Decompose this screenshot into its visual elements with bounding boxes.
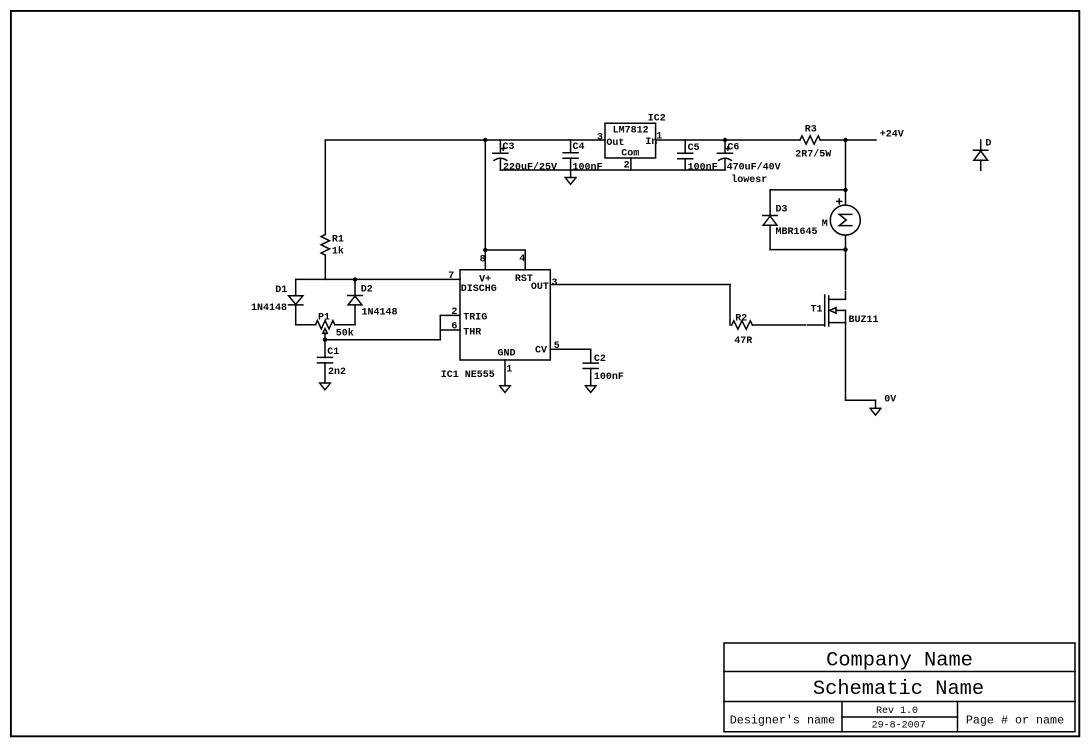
svg-text:C4: C4 bbox=[573, 142, 585, 153]
svg-text:1: 1 bbox=[506, 365, 512, 376]
svg-text:P1: P1 bbox=[318, 312, 330, 323]
svg-text:IC1 NE555: IC1 NE555 bbox=[441, 370, 495, 381]
svg-text:220uF/25V: 220uF/25V bbox=[503, 161, 557, 173]
svg-text:100nF: 100nF bbox=[594, 372, 624, 383]
svg-text:C5: C5 bbox=[688, 143, 700, 154]
svg-text:C6: C6 bbox=[727, 143, 739, 154]
svg-text:Designer's name: Designer's name bbox=[730, 713, 835, 727]
svg-text:1: 1 bbox=[656, 132, 662, 143]
svg-text:2n2: 2n2 bbox=[328, 367, 346, 378]
svg-text:TRIG: TRIG bbox=[463, 312, 487, 323]
svg-text:50k: 50k bbox=[336, 328, 354, 340]
svg-text:2: 2 bbox=[624, 160, 630, 171]
svg-text:1N4148: 1N4148 bbox=[362, 307, 398, 318]
svg-text:T1: T1 bbox=[811, 305, 823, 316]
svg-text:2R7/5W: 2R7/5W bbox=[795, 148, 831, 160]
svg-text:100nF: 100nF bbox=[573, 162, 603, 173]
svg-text:M: M bbox=[822, 219, 828, 230]
svg-text:8: 8 bbox=[480, 254, 486, 265]
svg-text:Schematic Name: Schematic Name bbox=[813, 678, 984, 701]
svg-text:Com: Com bbox=[621, 149, 639, 160]
svg-text:100nF: 100nF bbox=[688, 163, 718, 174]
svg-text:R2: R2 bbox=[735, 313, 747, 324]
svg-text:3: 3 bbox=[552, 278, 558, 289]
svg-text:LM7812: LM7812 bbox=[613, 125, 649, 136]
svg-text:D2: D2 bbox=[361, 284, 373, 295]
svg-text:47R: 47R bbox=[734, 336, 752, 347]
svg-text:Page # or name: Page # or name bbox=[966, 713, 1064, 727]
svg-text:C1: C1 bbox=[327, 347, 339, 358]
svg-text:CV: CV bbox=[535, 346, 547, 357]
svg-text:OUT: OUT bbox=[531, 282, 549, 293]
svg-text:IC2: IC2 bbox=[648, 114, 666, 125]
svg-text:GND: GND bbox=[498, 349, 516, 360]
svg-text:29-8-2007: 29-8-2007 bbox=[872, 721, 926, 732]
svg-text:R3: R3 bbox=[805, 124, 817, 135]
svg-text:MBR1645: MBR1645 bbox=[776, 227, 818, 238]
svg-text:C2: C2 bbox=[594, 354, 606, 365]
svg-text:7: 7 bbox=[448, 271, 454, 282]
svg-text:1N4148: 1N4148 bbox=[251, 303, 287, 314]
svg-text:+24V: +24V bbox=[880, 129, 904, 140]
svg-text:1k: 1k bbox=[332, 246, 344, 258]
svg-text:Company Name: Company Name bbox=[826, 649, 973, 672]
svg-text:Out: Out bbox=[606, 138, 624, 149]
svg-text:0V: 0V bbox=[884, 395, 896, 406]
svg-text:6: 6 bbox=[451, 321, 457, 332]
svg-text:THR: THR bbox=[463, 327, 481, 338]
svg-text:470uF/40V: 470uF/40V bbox=[727, 162, 781, 174]
svg-text:R1: R1 bbox=[332, 235, 344, 246]
svg-text:3: 3 bbox=[597, 132, 603, 143]
svg-text:2: 2 bbox=[451, 307, 457, 318]
svg-text:BUZ11: BUZ11 bbox=[849, 315, 879, 326]
svg-text:4: 4 bbox=[519, 254, 525, 265]
svg-text:Rev 1.0: Rev 1.0 bbox=[876, 706, 918, 717]
svg-text:D: D bbox=[985, 139, 991, 150]
svg-text:5: 5 bbox=[554, 341, 560, 352]
svg-text:DISCHG: DISCHG bbox=[461, 284, 497, 295]
svg-text:D3: D3 bbox=[776, 204, 788, 215]
svg-text:lowesr: lowesr bbox=[731, 174, 767, 186]
svg-text:C3: C3 bbox=[503, 142, 515, 153]
svg-text:D1: D1 bbox=[275, 285, 287, 296]
